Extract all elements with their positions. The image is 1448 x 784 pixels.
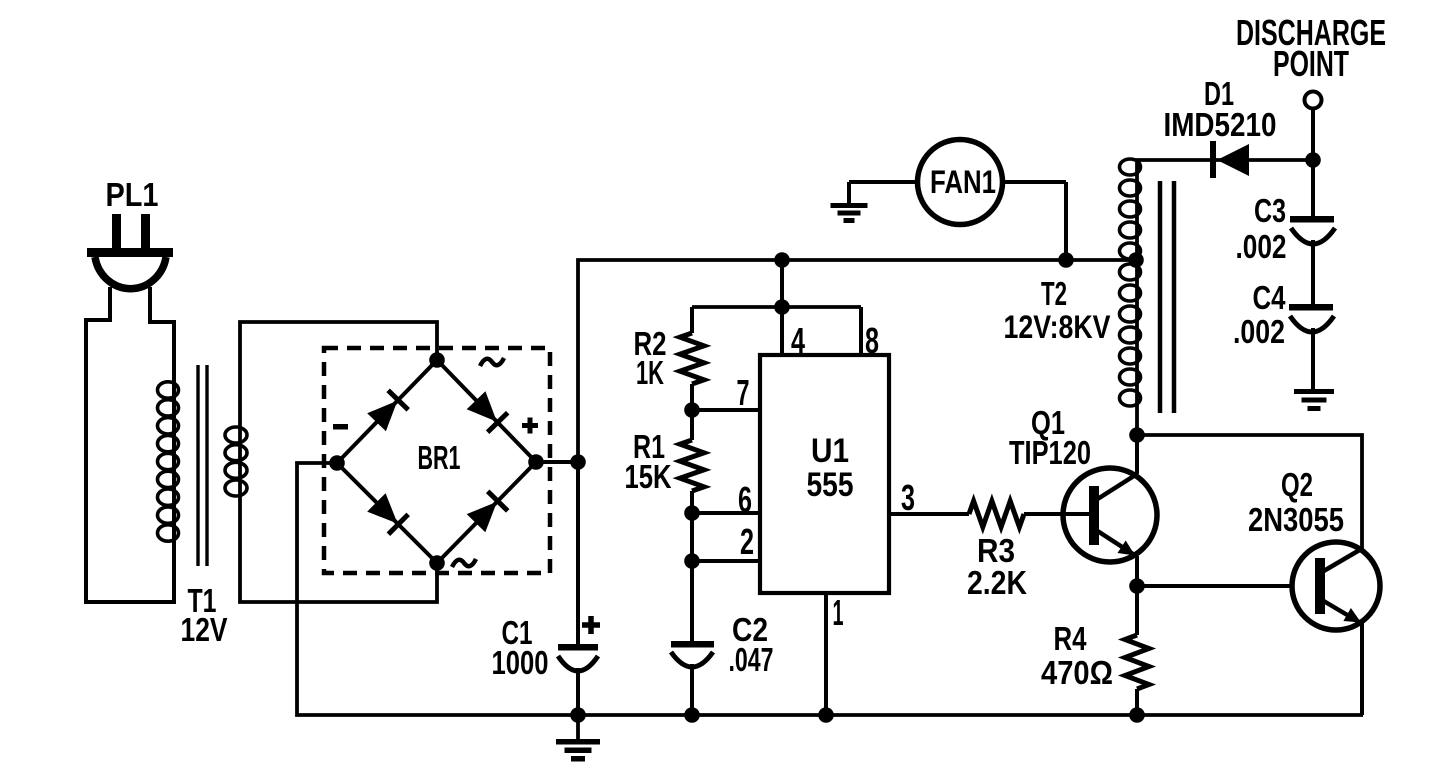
svg-text:555: 555 [807,466,854,504]
svg-text:15K: 15K [625,458,672,495]
svg-text:12V:8KV: 12V:8KV [1004,309,1112,345]
svg-text:.047: .047 [729,641,774,678]
svg-text:4: 4 [791,320,805,361]
svg-text:12V: 12V [181,611,228,648]
svg-text:U1: U1 [811,432,849,470]
svg-text:T2: T2 [1041,275,1067,312]
svg-text:470Ω: 470Ω [1041,654,1113,691]
svg-text:POINT: POINT [1273,43,1349,84]
svg-text:C3: C3 [1254,192,1286,229]
svg-text:1000: 1000 [492,644,549,681]
svg-text:8: 8 [865,320,879,361]
svg-text:PL1: PL1 [106,176,159,213]
svg-text:R4: R4 [1054,620,1088,657]
svg-text:TIP120: TIP120 [1009,434,1091,471]
svg-text:3: 3 [901,477,915,518]
svg-text:1: 1 [833,592,844,633]
svg-text:IMD5210: IMD5210 [1164,106,1277,143]
svg-text:.002: .002 [1236,228,1287,265]
svg-text:2N3055: 2N3055 [1248,501,1344,538]
svg-text:2.2K: 2.2K [967,564,1027,601]
svg-text:.002: .002 [1233,313,1285,350]
svg-text:Q2: Q2 [1281,466,1313,503]
svg-text:6: 6 [738,479,752,520]
svg-text:2: 2 [740,521,754,562]
svg-text:1K: 1K [636,354,664,391]
svg-text:BR1: BR1 [418,439,461,476]
svg-text:FAN1: FAN1 [930,164,996,200]
svg-text:7: 7 [737,372,750,413]
svg-text:C4: C4 [1253,279,1287,316]
